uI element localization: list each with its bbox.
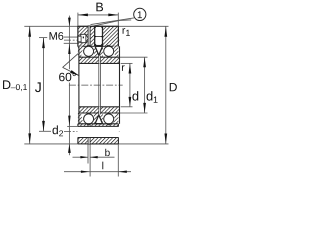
svg-text:1: 1 (137, 10, 142, 21)
svg-text:l: l (102, 160, 104, 172)
svg-text:M6: M6 (49, 31, 64, 43)
svg-text:60°: 60° (59, 70, 77, 84)
svg-text:J: J (35, 79, 42, 95)
svg-text:1: 1 (153, 95, 158, 105)
svg-text:b: b (105, 148, 111, 159)
svg-text:D: D (2, 78, 11, 92)
svg-text:D: D (169, 80, 178, 94)
svg-text:d: d (52, 123, 59, 137)
svg-text:r: r (121, 62, 125, 74)
svg-text:2: 2 (59, 128, 64, 138)
svg-text:1: 1 (125, 28, 130, 38)
svg-text:–0,1: –0,1 (11, 82, 28, 92)
svg-text:d: d (132, 89, 139, 104)
svg-text:B: B (95, 0, 103, 14)
